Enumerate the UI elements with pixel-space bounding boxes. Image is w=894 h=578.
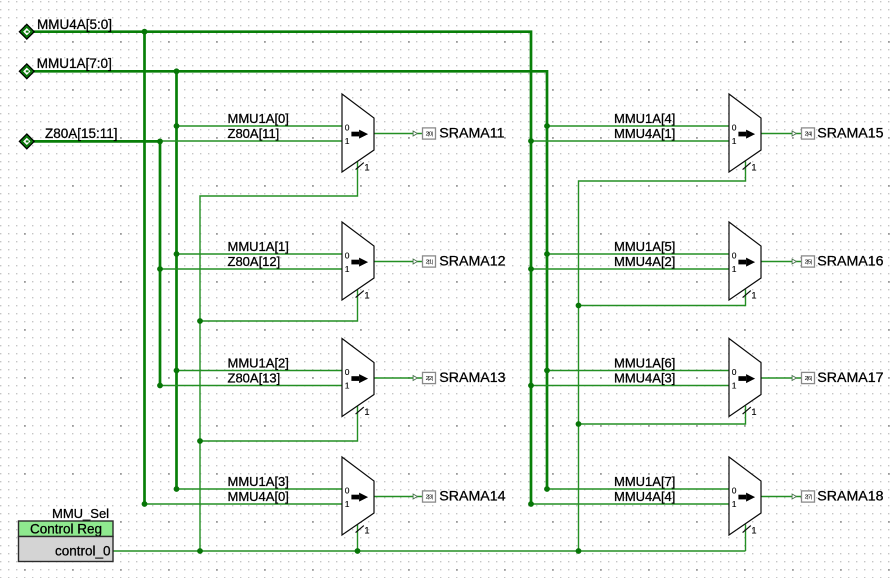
wire SRAMA17 output — [761, 377, 802, 379]
svg-text:MMU1A[6]: MMU1A[6] — [614, 355, 675, 370]
wire MMU4A[0] tap — [145, 503, 343, 505]
output marker SRAMA12 — [413, 256, 435, 267]
junction MMU1A[2] tap — [174, 368, 180, 374]
svg-text:Z80A[15:11]: Z80A[15:11] — [45, 126, 118, 141]
svg-text:MMU4A[1]: MMU4A[1] — [614, 126, 675, 141]
svg-text:SRAMA15: SRAMA15 — [817, 126, 883, 142]
wire MMU4A[2] tap — [531, 268, 729, 270]
svg-text:MMU4A[2]: MMU4A[2] — [614, 254, 675, 269]
svg-text:Z80A[13]: Z80A[13] — [228, 370, 281, 385]
wire select mux U2 to chain — [200, 289, 358, 321]
wire MMU1A[2] tap — [177, 370, 343, 372]
bus Z80A[15:11] trunk — [34, 141, 160, 385]
wire MMU4A[1] tap — [531, 140, 729, 142]
wire SRAMA13 output — [374, 377, 423, 379]
junction MMU1A[5] tap — [544, 251, 550, 257]
svg-text:MMU1A[7:0]: MMU1A[7:0] — [37, 56, 112, 71]
svg-text:2|4|: 2|4| — [805, 132, 812, 138]
wire select mux U7 to chain — [579, 406, 746, 424]
svg-text:SRAMA13: SRAMA13 — [439, 370, 505, 386]
control register box Control Reg header — [19, 521, 114, 537]
wire MMU1A[6] tap — [547, 370, 729, 372]
bus MMU1A[7:0] trunk — [34, 71, 547, 489]
junction left chain / control wire — [197, 548, 203, 554]
mux U1 (M2_1) — [342, 94, 374, 173]
input port MMU4A[5:0] — [19, 24, 34, 39]
wire Z80A[13] tap — [160, 385, 342, 387]
svg-text:2|7|: 2|7| — [805, 495, 812, 501]
wire select mux U3 to chain — [200, 406, 358, 441]
svg-text:SRAMA14: SRAMA14 — [439, 489, 505, 505]
svg-text:MMU4A[4]: MMU4A[4] — [614, 489, 675, 504]
mux U4 (M2_1) — [342, 457, 374, 536]
output marker SRAMA16 — [792, 256, 814, 267]
output marker SRAMA13 — [413, 372, 435, 383]
wire Z80A[11] tap — [160, 140, 342, 142]
wire control_0 net — [113, 550, 746, 552]
junction MMU4A[4] tap — [528, 501, 534, 507]
wire SRAMA18 output — [761, 496, 802, 498]
svg-text:MMU1A[5]: MMU1A[5] — [614, 239, 675, 254]
junction Z80A[12] tap — [157, 266, 163, 272]
mux U2 (M2_1) — [342, 222, 374, 301]
output marker SRAMA17 — [792, 372, 814, 383]
svg-text:2|1|: 2|1| — [426, 260, 433, 266]
wire SRAMA16 output — [761, 261, 802, 263]
input port MMU1A[7:0] — [19, 64, 34, 79]
wire select mux U6 to chain — [579, 289, 746, 305]
mux U8 (M2_1) — [729, 457, 761, 536]
svg-text:MMU4A[5:0]: MMU4A[5:0] — [37, 17, 112, 32]
output marker SRAMA11 — [413, 128, 435, 139]
wire MMU1A[5] tap — [547, 253, 729, 255]
wire MMU4A[4] tap — [531, 503, 729, 505]
mux U3 (M2_1) — [342, 339, 374, 418]
junction U4 select / control wire — [355, 548, 361, 554]
svg-text:Z80A[11]: Z80A[11] — [228, 126, 280, 141]
junction MMU4A[3] tap — [528, 383, 534, 389]
output marker SRAMA14 — [413, 491, 435, 502]
svg-text:SRAMA18: SRAMA18 — [817, 489, 883, 505]
svg-text:Z80A[12]: Z80A[12] — [228, 254, 281, 269]
svg-text:MMU1A[3]: MMU1A[3] — [228, 474, 289, 489]
wire SRAMA12 output — [374, 261, 423, 263]
junction MMU4A[2] tap — [528, 266, 534, 272]
output marker SRAMA15 — [792, 128, 814, 139]
svg-text:MMU_Sel: MMU_Sel — [52, 506, 109, 521]
junction MMU4A bus / left branch — [142, 29, 148, 35]
svg-text:MMU1A[0]: MMU1A[0] — [228, 111, 289, 126]
mux U5 (M2_1) — [729, 94, 761, 173]
wire MMU1A[1] tap — [177, 253, 343, 255]
junction MMU1A[7] tap — [544, 486, 550, 492]
svg-text:MMU1A[4]: MMU1A[4] — [614, 111, 675, 126]
svg-text:SRAMA12: SRAMA12 — [439, 254, 505, 270]
wire Z80A[12] tap — [160, 268, 342, 270]
svg-text:MMU4A[3]: MMU4A[3] — [614, 370, 675, 385]
junction Z80A[13] tap — [157, 383, 163, 389]
svg-text:2|2|: 2|2| — [426, 376, 433, 382]
output marker SRAMA18 — [792, 491, 814, 502]
wire select mux U4 to control — [357, 524, 359, 551]
mux U6 (M2_1) — [729, 222, 761, 301]
svg-text:2|5|: 2|5| — [805, 260, 812, 266]
mux U7 (M2_1) — [729, 339, 761, 418]
svg-text:SRAMA17: SRAMA17 — [817, 370, 883, 386]
svg-text:MMU1A[2]: MMU1A[2] — [228, 355, 289, 370]
wire MMU4A[3] tap — [531, 385, 729, 387]
junction MMU1A[3] tap — [174, 486, 180, 492]
junction right chain / U6 select — [576, 303, 582, 309]
junction left chain / U2 select — [197, 318, 203, 324]
bus MMU1A left branch wire — [175, 71, 178, 489]
svg-text:control_0: control_0 — [55, 544, 111, 559]
svg-text:2|3|: 2|3| — [426, 495, 433, 501]
svg-text:Control Reg: Control Reg — [30, 522, 102, 537]
svg-text:MMU1A[7]: MMU1A[7] — [614, 474, 675, 489]
bus MMU4A[5:0] trunk — [34, 32, 531, 504]
wire SRAMA15 output — [761, 133, 802, 135]
junction right chain / U7 select — [576, 421, 582, 427]
wire MMU1A[0] tap — [177, 125, 343, 127]
junction Z80A bus corner — [157, 139, 163, 145]
junction MMU1A[0] tap — [174, 123, 180, 129]
input port Z80A[15:11] — [19, 134, 34, 149]
control register body control_0 — [19, 537, 114, 562]
wire MMU1A[4] tap — [547, 125, 729, 127]
svg-text:MMU4A[0]: MMU4A[0] — [228, 489, 289, 504]
svg-text:2|0|: 2|0| — [426, 132, 433, 138]
junction right chain / control wire — [576, 548, 582, 554]
wire select mux U5 to chain — [579, 161, 746, 551]
wire SRAMA14 output — [374, 496, 423, 498]
svg-text:SRAMA11: SRAMA11 — [439, 126, 504, 142]
junction MMU1A[4] tap — [544, 123, 550, 129]
wire MMU1A[3] tap — [177, 488, 343, 490]
svg-text:SRAMA16: SRAMA16 — [817, 254, 883, 270]
junction MMU1A[6] tap — [544, 368, 550, 374]
bus MMU4A left branch wire — [143, 32, 146, 504]
junction MMU1A bus / left branch — [174, 68, 180, 74]
junction left chain / U3 select — [197, 438, 203, 444]
wire MMU1A[7] tap — [547, 488, 729, 490]
svg-text:MMU1A[1]: MMU1A[1] — [228, 239, 289, 254]
junction MMU1A[1] tap — [174, 251, 180, 257]
svg-text:2|6|: 2|6| — [805, 376, 812, 382]
junction MMU4A[1] tap — [528, 138, 534, 144]
wire select mux U1 to chain — [200, 161, 358, 551]
wire select mux U8 to control — [745, 524, 747, 551]
junction MMU4A[0] tap — [142, 501, 148, 507]
wire SRAMA11 output — [374, 133, 423, 135]
